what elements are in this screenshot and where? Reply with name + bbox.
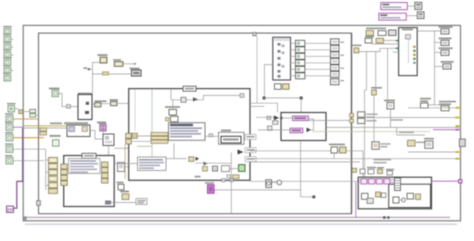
tunnels on F6 bottom edge bbox=[222, 179, 234, 182]
global constant P1 bbox=[381, 3, 408, 10]
control terminal CT3 bbox=[3, 42, 13, 50]
F9 left tunnels bbox=[61, 164, 68, 185]
vi icon A2 with label bbox=[113, 59, 123, 66]
wire violet unit down bbox=[102, 131, 104, 134]
control terminal CT6 bbox=[3, 65, 13, 73]
F9 inner text box bbox=[69, 159, 101, 174]
violet wire F7 to right edge bbox=[432, 180, 460, 182]
wire from B4 into PID box bbox=[59, 94, 79, 107]
long violet wire along bottom bbox=[25, 216, 451, 218]
icons top inside F6 bbox=[165, 106, 180, 122]
control terminal CL4 bbox=[5, 143, 14, 152]
wire down into F8 bbox=[300, 98, 302, 113]
wire T1 to T2 bbox=[205, 135, 219, 137]
indicator row R2 bbox=[439, 38, 452, 46]
labels right of node pair bbox=[367, 114, 378, 122]
tan vertical wire left of F6 bbox=[124, 145, 126, 180]
wire y161.9 bbox=[250, 161, 360, 163]
wait-ms clock icon bbox=[266, 180, 272, 188]
EP reference icon bottom-left bbox=[7, 206, 14, 213]
unbundle node U1 bbox=[273, 37, 291, 80]
frame corner join bbox=[23, 216, 27, 220]
control terminal CT8 (enable) bbox=[7, 103, 16, 112]
bottom row increment tick bbox=[227, 175, 231, 178]
glyph box on top wire bbox=[181, 97, 186, 102]
small label plates on F6 right edge bbox=[245, 134, 256, 139]
right half horizontal wires with tunnel ticks bbox=[408, 107, 459, 109]
pale green wire from F8 bbox=[312, 131, 430, 133]
wire gray from CL5 bbox=[13, 160, 44, 162]
wire F9 to T3 bbox=[114, 163, 137, 165]
tunnel on F1 left edge bbox=[19, 110, 23, 114]
control terminal CT4 bbox=[3, 49, 13, 57]
wire B6 area to F6 edge bbox=[114, 147, 128, 149]
glyph on B4 wire bbox=[67, 105, 71, 109]
wire into integrator top bbox=[387, 76, 389, 103]
wire into F6 left bbox=[117, 102, 129, 104]
schleife text label bbox=[374, 159, 392, 164]
wire chain PID to F6 bbox=[92, 103, 95, 105]
faint vertical near F6 top-left bbox=[134, 89, 136, 131]
input constants left of F4 row1 bbox=[366, 28, 396, 36]
schema label and tan box mid right bbox=[371, 87, 382, 95]
long wire y127 bbox=[326, 126, 459, 128]
small node between F9 and F6 bbox=[118, 163, 125, 172]
mid right icon add bbox=[372, 142, 391, 150]
small node box B6 bbox=[103, 134, 114, 146]
wire tunnel stub lower into tan rows bbox=[131, 140, 151, 142]
green wire descending inside F6 bbox=[151, 89, 153, 158]
wire T2 to F6 right edge bbox=[244, 137, 250, 139]
control terminal CT2 bbox=[3, 34, 13, 42]
wire junction dwl label bbox=[84, 67, 91, 70]
wire P2 to I2 bbox=[406, 15, 417, 17]
wire between vi pair bbox=[101, 103, 111, 105]
tunnel on F2 top edge bbox=[253, 32, 256, 35]
striped index node bbox=[395, 178, 401, 191]
wire vertical x364 bbox=[364, 90, 366, 177]
wire into F8 left mid bbox=[256, 116, 274, 118]
violet wire from EP up along frame bbox=[14, 181, 24, 208]
svg-text:EP: EP bbox=[7, 207, 13, 212]
text box T3 bbox=[138, 157, 167, 171]
tiny marks on bottom violet wire bbox=[383, 216, 390, 218]
collector wire vertical bbox=[45, 158, 47, 190]
indicator row R3 bbox=[439, 47, 453, 55]
node pair on right of F2 edge bbox=[358, 112, 366, 124]
indicator column B bbox=[331, 39, 340, 85]
wire sm2 to green bbox=[230, 168, 239, 170]
control terminal CL1 bbox=[5, 113, 14, 122]
control terminal CT1 bbox=[3, 26, 12, 34]
staircase bus into F4 bbox=[359, 41, 399, 53]
while-loop bottom shadow line bbox=[25, 223, 457, 225]
top right small label pair 2 bbox=[439, 101, 456, 111]
tan icon pair above wire bbox=[120, 191, 129, 200]
numeric constant circle bbox=[272, 180, 282, 185]
wire B5 to B6 bbox=[90, 131, 103, 140]
U1 input wire bbox=[264, 65, 272, 98]
wire across F6 top bbox=[171, 89, 240, 100]
wire into F2 at y=111 bbox=[23, 111, 30, 113]
inner case frame F2 bbox=[39, 33, 352, 214]
dark triangle top right inside F6 bbox=[238, 150, 244, 155]
violet unit constant bbox=[97, 122, 106, 132]
nested frame inside F7 bbox=[389, 184, 431, 207]
CASE STRUCTURE F9 bottom-left bbox=[64, 156, 114, 207]
icon I1 bbox=[415, 2, 422, 9]
wire T3 to node bbox=[166, 158, 187, 160]
vi pair 2 right of PID box bbox=[110, 99, 119, 106]
descender wire x366 bbox=[366, 52, 368, 90]
violet VISA node below F6 bbox=[205, 182, 214, 193]
tunnel pair on F2 left edge bbox=[40, 128, 47, 135]
green array box bbox=[239, 165, 246, 172]
SEQUENCE FRAME F4 top right bbox=[399, 28, 418, 76]
second feed wire bbox=[195, 162, 231, 164]
wire B6 down to F9 bbox=[108, 146, 110, 156]
lower icons inside F7 left bbox=[362, 192, 386, 204]
wire B1 to B2 loop bbox=[308, 119, 314, 130]
wire from F6 right to F8 tunnel bbox=[250, 103, 278, 112]
column A to column B wires bbox=[305, 43, 331, 76]
wire from tan box down bbox=[373, 95, 375, 142]
wire green horizontal inside F6 bbox=[137, 145, 152, 147]
pair below U1 bbox=[275, 84, 290, 90]
stack cell S1 bbox=[49, 157, 58, 162]
stack cell S3 bbox=[49, 170, 58, 175]
wire y158.7 long bbox=[250, 158, 459, 160]
wire gray from CL4 bbox=[13, 148, 46, 150]
junction stub to riser bbox=[90, 68, 93, 70]
formula text box T1 bbox=[169, 123, 206, 141]
F9 selector tab bbox=[82, 153, 96, 158]
control terminal CL2 bbox=[5, 122, 13, 131]
junction square below bbox=[312, 196, 315, 199]
integrator icon bbox=[384, 100, 395, 109]
boolean icon B4 with label bbox=[49, 88, 60, 97]
wire violet stub from CL2 bbox=[13, 126, 23, 128]
PID sub-vi tall dark box bbox=[78, 93, 92, 119]
F6 left edge tunnels bbox=[126, 133, 138, 144]
control terminal CT5 bbox=[3, 57, 12, 65]
small op glyphs near sm2 bbox=[203, 166, 230, 172]
small node pair after T3 bbox=[189, 157, 199, 162]
U1 output wires bbox=[291, 43, 296, 76]
junction dot right bbox=[300, 97, 303, 100]
wire riser below F8 bbox=[301, 141, 313, 197]
box T2 with inner frame bbox=[219, 132, 245, 144]
b+ tan icon with label bbox=[353, 45, 362, 53]
control terminal CL3 bbox=[5, 132, 13, 141]
icon I2 bbox=[417, 12, 424, 19]
vi pair right of PID box bbox=[95, 100, 107, 106]
wire into F2 at y=115 bbox=[36, 114, 39, 116]
wire y181.3 from F6 corner to F7 bbox=[250, 180, 358, 182]
small op icons left of F8 bbox=[268, 121, 279, 131]
triangle on top wire bbox=[193, 97, 198, 101]
VISA config box B5 bbox=[64, 122, 90, 136]
descender wire x387.6 bbox=[387, 48, 389, 76]
label box right of F9 bottom bbox=[136, 199, 147, 205]
indicator row R1 bbox=[439, 26, 453, 34]
violet node row in F7 bbox=[361, 179, 390, 184]
junction dot left bbox=[263, 97, 266, 100]
wire y150.8 bbox=[250, 151, 363, 177]
tan label rows left of T1 bbox=[151, 132, 168, 143]
indicator row R4 bbox=[441, 61, 454, 69]
stack cell S5 bbox=[49, 183, 58, 188]
row of constants above F7 bbox=[352, 167, 394, 175]
stack top label bbox=[50, 123, 62, 125]
box T2 label bbox=[221, 130, 231, 132]
bottom row label bbox=[195, 176, 201, 178]
stub into stack S1 bbox=[46, 159, 49, 161]
property node column A bbox=[296, 40, 305, 79]
descender wire x375.7 bbox=[375, 52, 377, 90]
F2 right edge emphasis bbox=[351, 33, 353, 214]
extra glyph triangle bbox=[204, 162, 208, 166]
violet wire segment descending along F1 left edge bbox=[22, 128, 24, 181]
BOTTOM RIGHT SUBFRAME F7 bbox=[358, 177, 431, 209]
wire from VISA node to riser bbox=[214, 189, 301, 191]
CENTRAL CASE STRUCTURE F6 bbox=[129, 89, 250, 181]
stub into stack S3 bbox=[46, 171, 49, 173]
wire from icons down to long wire bbox=[333, 153, 335, 159]
wire chain lower bbox=[173, 143, 175, 158]
global constant P2 bbox=[379, 13, 407, 20]
wire from top tunnel down bbox=[256, 36, 258, 103]
wire P1 to I1 bbox=[407, 5, 415, 7]
SUBFRAME F8 (feedback loop) bbox=[281, 113, 326, 141]
tan tunnels on F2 right edge bbox=[350, 114, 354, 123]
stub into stack S5 bbox=[46, 184, 49, 186]
stack cell S2 bbox=[49, 164, 58, 169]
violet wire down F7 left bbox=[355, 182, 357, 217]
mid right box setval bbox=[424, 138, 434, 148]
violet chain wires in F7 bbox=[358, 179, 394, 181]
mid right tan node bbox=[408, 140, 426, 146]
violet junction square on right edge bbox=[459, 180, 462, 183]
wire vertical x396 bbox=[396, 127, 398, 135]
violet node B2 bbox=[290, 128, 303, 133]
vi icon A1 with label bbox=[98, 54, 108, 63]
wire node to F6 edge bbox=[125, 166, 129, 168]
remote labels bbox=[390, 119, 414, 133]
F6 selector tab bbox=[183, 86, 196, 91]
wire vertical x390 bbox=[390, 109, 392, 127]
glyph on T1-T2 wire bbox=[209, 134, 213, 137]
wire from CT8 to tunnel bbox=[15, 108, 19, 110]
control terminal CT7 bbox=[3, 73, 11, 81]
right edge terminal icon bbox=[459, 139, 465, 147]
wire from F6 right to riser bbox=[250, 105, 264, 107]
tunnel near F6 right top bbox=[240, 94, 244, 98]
wire into F8 lower bbox=[258, 129, 290, 131]
input constants left of F4 row2 bbox=[365, 36, 384, 43]
tan wire from left into B5 bbox=[23, 125, 67, 127]
wire orange from CL3 bbox=[13, 137, 44, 139]
vertical distribution wire bbox=[434, 31, 436, 105]
wire to A3 with small label bbox=[93, 72, 132, 75]
wire inside nested frame bbox=[399, 199, 402, 201]
outer while-loop frame F1 bbox=[23, 25, 460, 220]
indicator box A3 with label bbox=[130, 68, 142, 76]
stack cell S4 bbox=[49, 176, 58, 181]
wire branch into icon stack bbox=[172, 100, 174, 110]
violet node B1 bbox=[293, 116, 309, 121]
top right small label pair 1 bbox=[420, 98, 431, 108]
arrow into F8 left bbox=[267, 115, 279, 120]
icons near F2 right edge inside bbox=[329, 144, 346, 153]
feedback arrow bbox=[307, 128, 312, 133]
wire riser top into A1 bbox=[93, 62, 101, 94]
tiny labels right of column B bbox=[341, 42, 345, 82]
node pair between frame edges bbox=[30, 109, 36, 117]
F9 right tunnels bbox=[102, 162, 109, 183]
error cluster glyph below F9 bbox=[105, 201, 136, 205]
horizontal feed wire bbox=[264, 97, 301, 99]
small node above tan pair bbox=[117, 182, 125, 190]
icons inside nested frame bbox=[393, 193, 421, 203]
wire entering B1 bbox=[281, 117, 293, 119]
stack cell S6 bbox=[49, 189, 58, 194]
wire orange from CL1 into frame bbox=[13, 118, 39, 120]
wire tunnel stub into tan rows bbox=[131, 135, 151, 137]
control terminal CL5 bbox=[5, 155, 13, 164]
wire exiting F8 right bbox=[309, 119, 352, 121]
gray wire from left into B5 bbox=[23, 127, 67, 129]
bottom row tan box bbox=[233, 175, 239, 179]
node sm2 bbox=[213, 166, 218, 171]
loop iteration terminal on F2 left edge bbox=[37, 201, 41, 206]
vertical wire from F6 bottom to bus bbox=[230, 153, 232, 214]
numeric icon with label bbox=[50, 135, 61, 146]
violet wire to right edge bbox=[433, 129, 459, 131]
A2 output wire with end tick bbox=[123, 63, 136, 65]
